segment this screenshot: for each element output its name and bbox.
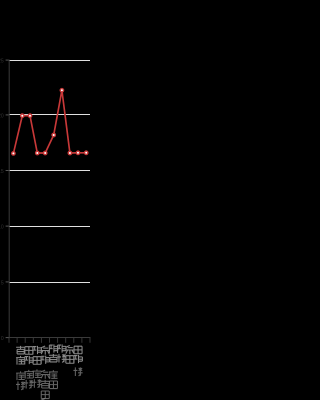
x axis label column 2 — [24, 347, 33, 389]
y-axis tick labels (mostly clipped at left edge) — [0, 59, 4, 343]
marker p3 — [28, 114, 31, 117]
x-axis line — [9, 337, 91, 338]
x axis label column 5 — [49, 344, 58, 388]
marker p4 — [36, 151, 39, 154]
marker p6 — [52, 133, 55, 136]
marker p9 — [76, 151, 79, 154]
horizontal gridline 2 — [9, 114, 90, 115]
y-axis line — [9, 60, 10, 339]
marker p1 — [12, 152, 15, 155]
svg-text:10: 10 — [0, 225, 4, 231]
svg-text:25: 25 — [0, 59, 4, 65]
svg-text:20: 20 — [0, 113, 4, 119]
marker p10 — [85, 151, 88, 154]
data point markers — [12, 89, 88, 155]
x axis label column 6 — [57, 344, 66, 362]
x axis label column 4 — [41, 346, 50, 400]
svg-text:5: 5 — [1, 280, 4, 286]
horizontal gridline 1 — [9, 60, 90, 61]
series line — [13, 90, 86, 153]
x axis label column 8 — [73, 346, 82, 376]
y-axis ticks — [6, 60, 9, 338]
horizontal gridline 4 — [9, 226, 90, 227]
marker p2 — [21, 114, 24, 117]
svg-text:15: 15 — [0, 169, 4, 175]
horizontal gridline 3 — [9, 170, 90, 171]
horizontal gridline 5 — [9, 282, 90, 283]
x axis label column 7 — [65, 346, 74, 364]
svg-text:0: 0 — [1, 336, 4, 342]
marker p5 — [44, 151, 47, 154]
x axis label column 1 — [16, 346, 25, 390]
marker p7 — [60, 89, 63, 92]
marker p8 — [68, 151, 71, 154]
x axis label column 3 — [32, 346, 41, 388]
x-axis ticks — [9, 338, 90, 343]
